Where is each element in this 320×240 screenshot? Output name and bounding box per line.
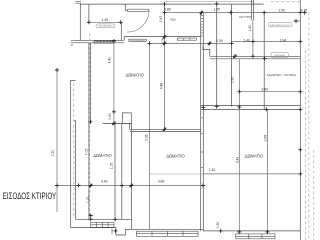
- svg-text:ΔΩΜΑΤΙΟ: ΔΩΜΑΤΙΟ: [245, 153, 263, 158]
- svg-text:ΚΑΤΟΙΚΙΑ: ΚΑΤΟΙΚΙΑ: [275, 54, 285, 57]
- svg-text:1.40: 1.40: [243, 38, 250, 42]
- svg-text:ΔΩΜΑΤΙΟ: ΔΩΜΑΤΙΟ: [125, 72, 143, 77]
- svg-text:1.05: 1.05: [213, 8, 220, 12]
- svg-text:4.48: 4.48: [159, 83, 163, 90]
- svg-text:0.90: 0.90: [216, 221, 220, 228]
- svg-text:2.90: 2.90: [261, 87, 268, 91]
- svg-text:3.40: 3.40: [101, 180, 108, 184]
- svg-text:ΔΩΜΑΤΙΟ: ΔΩΜΑΤΙΟ: [166, 153, 184, 158]
- svg-text:0.90: 0.90: [108, 113, 112, 120]
- svg-text:1.95: 1.95: [231, 77, 235, 84]
- svg-text:2.35: 2.35: [144, 134, 148, 141]
- svg-text:1.40: 1.40: [248, 25, 252, 32]
- svg-text:0.90: 0.90: [216, 39, 223, 43]
- svg-text:1.15: 1.15: [86, 197, 90, 204]
- svg-text:0.70: 0.70: [301, 9, 308, 13]
- svg-text:0.30: 0.30: [160, 37, 164, 43]
- svg-text:1.50: 1.50: [51, 150, 55, 157]
- svg-text:7.05: 7.05: [85, 149, 89, 156]
- svg-text:1.84: 1.84: [280, 38, 287, 42]
- svg-text:ΔΩΜΑΤΙΟ: ΔΩΜΑΤΙΟ: [93, 153, 111, 158]
- svg-text:1.40: 1.40: [101, 18, 108, 22]
- svg-text:3.68: 3.68: [158, 180, 165, 184]
- svg-text:2.47: 2.47: [159, 16, 163, 23]
- svg-text:3.43: 3.43: [235, 157, 239, 164]
- svg-text:7.40: 7.40: [209, 168, 216, 172]
- svg-text:2.65: 2.65: [264, 135, 268, 142]
- svg-text:0.30: 0.30: [110, 228, 114, 234]
- svg-text:ΕΙΣΟΔΟΣ ΚΤΙΡΙΟΥ: ΕΙΣΟΔΟΣ ΚΤΙΡΙΟΥ: [3, 191, 56, 201]
- svg-text:ΚΑΤΟΙΚΙΑ ΙΣΟΓΕΙΟΥ: ΚΑΤΟΙΚΙΑ ΙΣΟΓΕΙΟΥ: [270, 24, 291, 27]
- svg-text:ΧΩΛ: ΧΩΛ: [170, 18, 176, 22]
- svg-text:ΛΟΥΤΡΟ: ΛΟΥΤΡΟ: [239, 15, 252, 19]
- svg-text:ΚΑΘΙΣΤΙΚΟ - ΚΟΥΖΙΝΑ: ΚΑΘΙΣΤΙΚΟ - ΚΟΥΖΙΝΑ: [267, 73, 297, 77]
- svg-text:1.90: 1.90: [278, 9, 285, 13]
- svg-text:0.80: 0.80: [164, 8, 171, 12]
- svg-text:ΥΠΝΟΔΩΜΑΤΙΟ: ΥΠΝΟΔΩΜΑΤΙΟ: [97, 25, 113, 28]
- svg-text:4.40: 4.40: [108, 57, 112, 64]
- svg-text:1.15: 1.15: [110, 163, 114, 170]
